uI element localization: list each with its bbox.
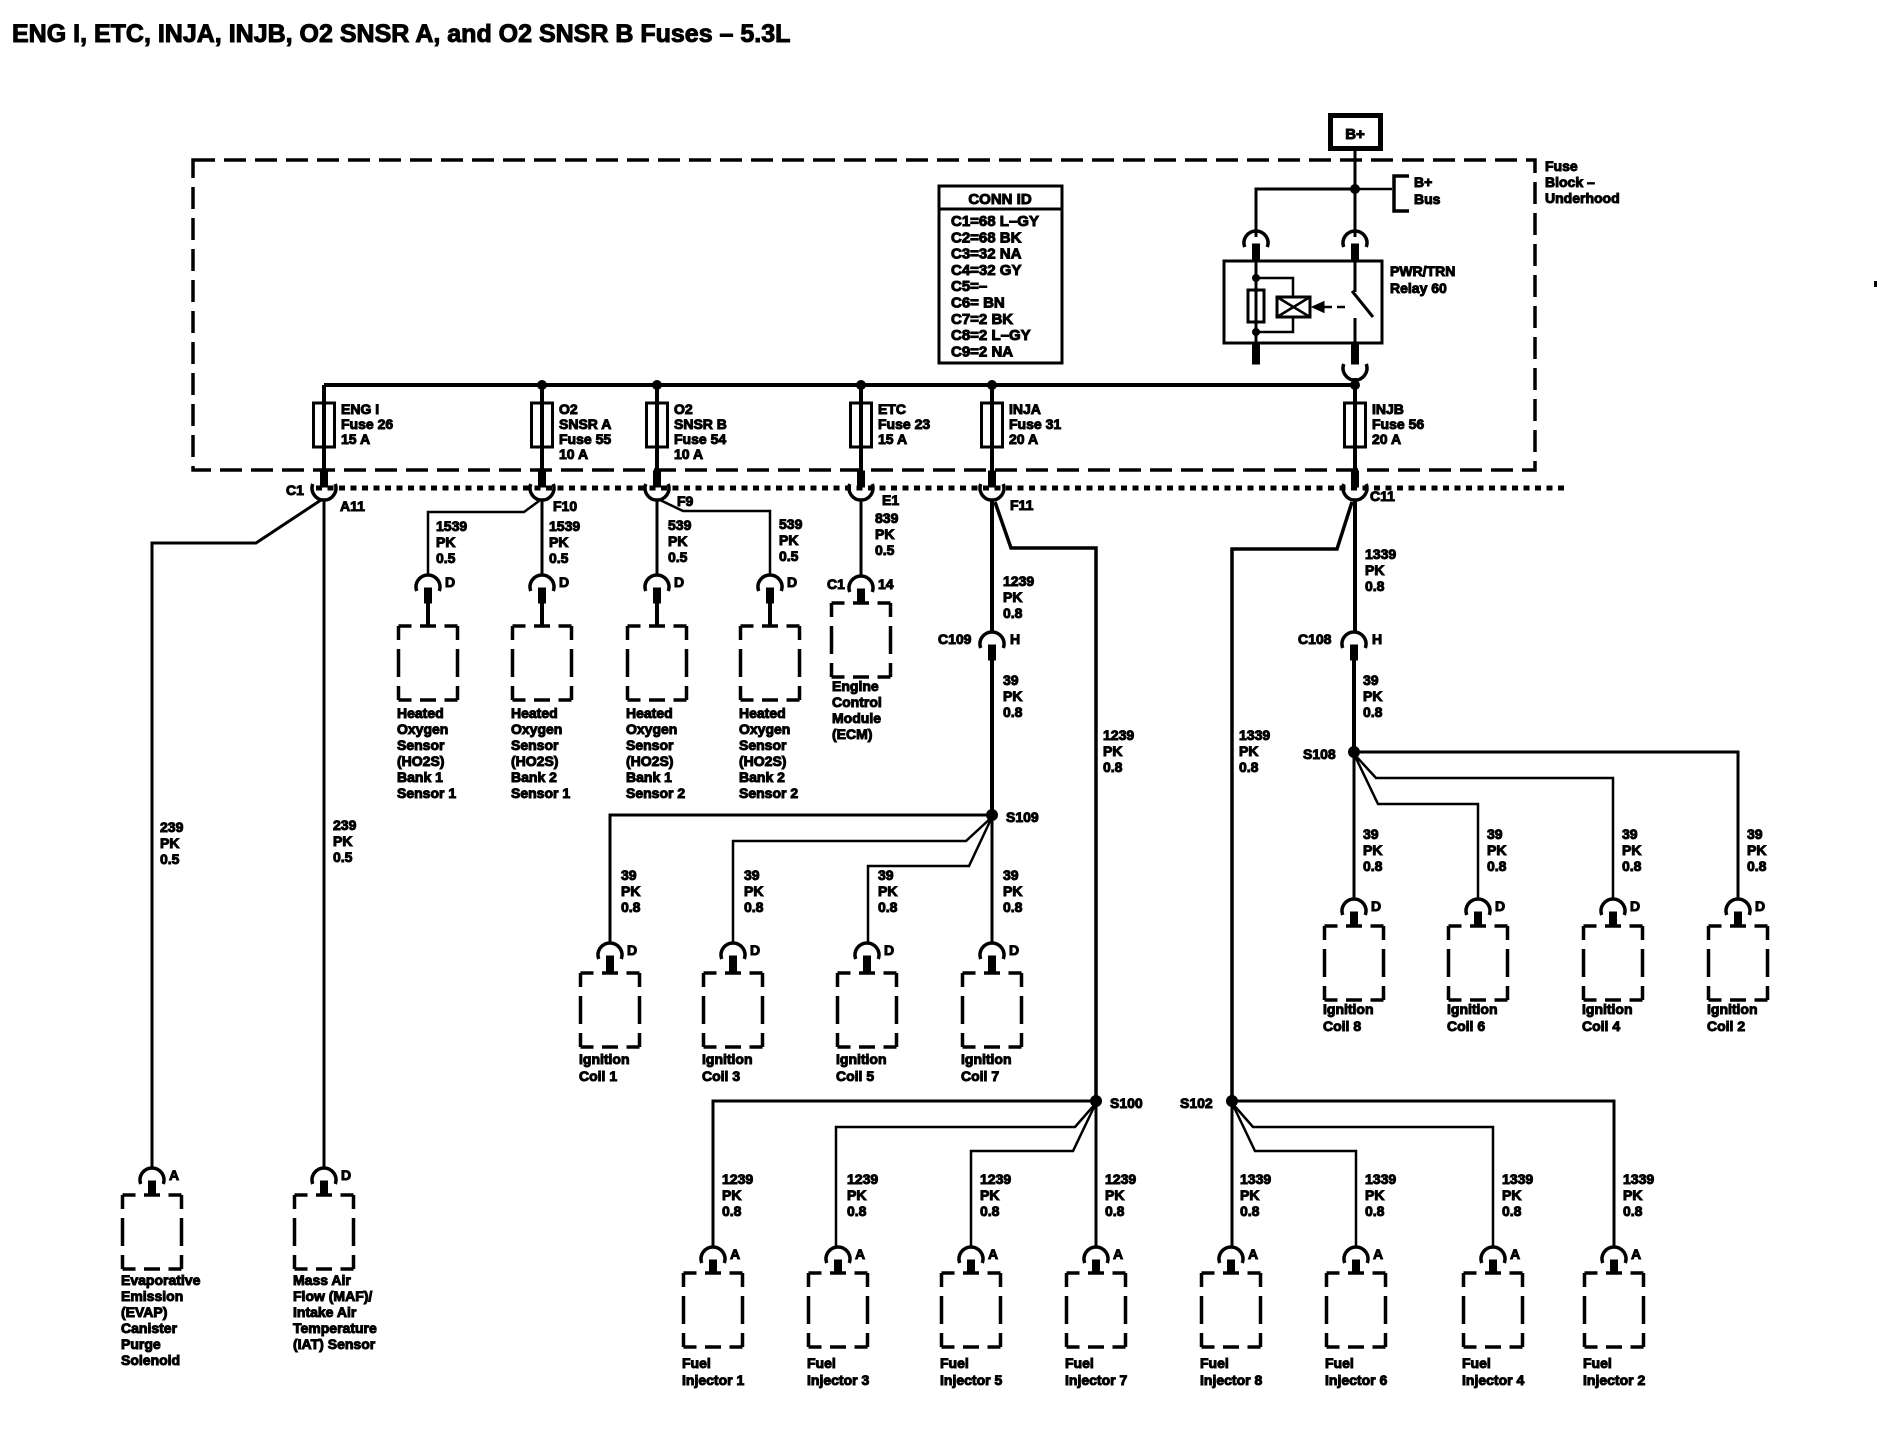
svg-text:Heated: Heated: [626, 705, 673, 721]
relay coil ground stub: [1253, 344, 1260, 364]
connector relay output: [1343, 364, 1367, 380]
svg-text:Ignition: Ignition: [579, 1051, 630, 1067]
svg-text:Oxygen: Oxygen: [739, 721, 790, 737]
wire C109 to S109 (circuit 39): [990, 659, 994, 815]
svg-text:0.8: 0.8: [1103, 759, 1123, 775]
wire C11 to C108 (circuit 1339): [1353, 499, 1357, 632]
node bus tap O2 SNSR A Fuse 55: [538, 381, 547, 390]
svg-text:0.5: 0.5: [668, 549, 688, 565]
wire junction to relay switch side: [1354, 189, 1357, 237]
wire S108 to ignition coil 8: [1353, 755, 1356, 900]
svg-text:1339: 1339: [1502, 1171, 1533, 1187]
wire F9 to HO2S bank2 sensor2 (circuit 539): [660, 500, 770, 576]
svg-text:INJA: INJA: [1009, 401, 1041, 417]
svg-text:S100: S100: [1110, 1095, 1143, 1111]
svg-text:PK: PK: [847, 1187, 866, 1203]
node bus at INJB: [1351, 381, 1360, 390]
svg-text:Injector 6: Injector 6: [1325, 1372, 1387, 1388]
svg-text:D: D: [674, 574, 684, 590]
svg-text:Ignition: Ignition: [1707, 1001, 1758, 1017]
relay coil element: [1248, 290, 1264, 322]
svg-text:Coil 8: Coil 8: [1323, 1018, 1361, 1034]
connector relay pin 2 (switch): [1343, 231, 1367, 260]
svg-text:0.8: 0.8: [980, 1203, 1000, 1219]
connector pin D of ignition coil 5: [855, 943, 879, 973]
node bus tap INJA Fuse 31: [988, 381, 997, 390]
svg-text:Fuel: Fuel: [1325, 1355, 1354, 1371]
svg-text:C11: C11: [1370, 488, 1395, 504]
wire S102 to fuel injector 6: [1232, 1103, 1356, 1248]
svg-text:Engine: Engine: [832, 678, 879, 694]
svg-text:PK: PK: [1363, 688, 1382, 704]
svg-text:0.8: 0.8: [1365, 1203, 1385, 1219]
svg-text:20 A: 20 A: [1009, 431, 1038, 447]
component box fuel injector 6: [1327, 1273, 1386, 1347]
fuse O2 SNSR A Fuse 55 10 A: [532, 385, 553, 473]
svg-text:Bank 1: Bank 1: [626, 769, 672, 785]
component box fuel injector 8: [1202, 1273, 1261, 1347]
svg-text:D: D: [445, 574, 455, 590]
component box ignition coil 4: [1584, 926, 1643, 1000]
svg-text:CONN ID: CONN ID: [968, 191, 1032, 208]
svg-text:A11: A11: [340, 498, 365, 514]
svg-text:(ECM): (ECM): [832, 726, 872, 742]
svg-text:1239: 1239: [1103, 727, 1134, 743]
connector pin D of MAF/IAT sensor: [312, 1168, 336, 1196]
connector C1 pin 14 of ECM: [849, 576, 873, 604]
svg-text:Coil 1: Coil 1: [579, 1068, 617, 1084]
svg-text:SNSR B: SNSR B: [674, 416, 727, 432]
component box MAF/IAT sensor: [295, 1195, 354, 1269]
node bus tap ETC Fuse 23: [857, 381, 866, 390]
svg-text:PK: PK: [1487, 842, 1506, 858]
wire C11 branch to S102 (circuit 1339): [1232, 502, 1352, 1101]
wire C1 to EVAP (circuit 239): [152, 500, 321, 1169]
wire F10 to HO2S bank2 sensor1 (circuit 1539): [541, 499, 544, 576]
wire relay output to bus: [1354, 378, 1357, 385]
node relay coil bottom: [1253, 329, 1260, 336]
svg-text:Fuse 26: Fuse 26: [341, 416, 393, 432]
component box fuel injector 4: [1464, 1273, 1523, 1347]
svg-text:1539: 1539: [549, 518, 580, 534]
component box HO2S bank 1 sensor 1: [399, 626, 458, 700]
svg-text:Bank 2: Bank 2: [739, 769, 785, 785]
wire F10 to HO2S bank1 sensor1 (circuit 1539): [428, 501, 539, 576]
svg-text:(HO2S): (HO2S): [397, 753, 444, 769]
artifact speck: [1874, 281, 1877, 287]
svg-text:PK: PK: [436, 534, 455, 550]
svg-text:0.8: 0.8: [1240, 1203, 1260, 1219]
svg-text:A: A: [1510, 1246, 1520, 1262]
svg-text:Sensor 1: Sensor 1: [511, 785, 570, 801]
svg-text:Ignition: Ignition: [702, 1051, 753, 1067]
svg-text:Coil 3: Coil 3: [702, 1068, 740, 1084]
connector E1 at fuse block: [849, 471, 873, 500]
svg-text:H: H: [1372, 631, 1382, 647]
connector pin A of fuel injector 6: [1344, 1247, 1368, 1274]
svg-text:Fuel: Fuel: [807, 1355, 836, 1371]
svg-text:PK: PK: [1105, 1187, 1124, 1203]
svg-text:Fuel: Fuel: [682, 1355, 711, 1371]
svg-text:1339: 1339: [1365, 546, 1396, 562]
svg-text:Oxygen: Oxygen: [511, 721, 562, 737]
node splice S102: [1227, 1096, 1238, 1107]
svg-text:(HO2S): (HO2S): [739, 753, 786, 769]
wire S100 to fuel injector 1: [713, 1101, 1096, 1248]
svg-text:B+: B+: [1345, 126, 1365, 143]
svg-text:0.8: 0.8: [744, 899, 764, 915]
svg-text:Ignition: Ignition: [836, 1051, 887, 1067]
svg-text:Fuse 56: Fuse 56: [1372, 416, 1424, 432]
svg-text:PK: PK: [1622, 842, 1641, 858]
svg-text:Emission: Emission: [121, 1288, 183, 1304]
svg-text:0.5: 0.5: [160, 851, 180, 867]
svg-text:1239: 1239: [1003, 573, 1034, 589]
connector F10 at fuse block: [530, 471, 554, 500]
svg-text:C108: C108: [1298, 631, 1332, 647]
svg-text:A: A: [1113, 1246, 1123, 1262]
svg-text:PK: PK: [549, 534, 568, 550]
connector pin D of ignition coil 3: [721, 943, 745, 973]
svg-text:Injector 4: Injector 4: [1462, 1372, 1524, 1388]
connector C1 pin A11 at fuse block: [312, 471, 336, 500]
svg-text:1339: 1339: [1240, 1171, 1271, 1187]
component box fuel injector 7: [1067, 1273, 1126, 1347]
connector pin D of HO2S bank 2 sensor 1: [530, 575, 554, 626]
component box ignition coil 7: [963, 973, 1022, 1047]
wire S102 to fuel injector 2: [1232, 1101, 1614, 1248]
svg-text:C9=2 NA: C9=2 NA: [951, 343, 1013, 360]
svg-text:10 A: 10 A: [559, 446, 588, 462]
connector F11 at fuse block: [980, 471, 1004, 500]
svg-text:39: 39: [621, 867, 637, 883]
connector C11 at fuse block: [1343, 471, 1367, 500]
svg-text:0.8: 0.8: [1623, 1203, 1643, 1219]
svg-text:Evaporative: Evaporative: [121, 1272, 201, 1288]
svg-text:1339: 1339: [1623, 1171, 1654, 1187]
svg-text:10 A: 10 A: [674, 446, 703, 462]
svg-text:PK: PK: [621, 883, 640, 899]
svg-text:1339: 1339: [1239, 727, 1270, 743]
relay switch contact: [1354, 261, 1357, 292]
svg-text:C109: C109: [938, 631, 972, 647]
svg-text:Coil 2: Coil 2: [1707, 1018, 1745, 1034]
component box fuel injector 5: [942, 1273, 1001, 1347]
svg-text:C1: C1: [827, 576, 845, 592]
svg-text:A: A: [1373, 1246, 1383, 1262]
svg-text:D: D: [1630, 898, 1640, 914]
connector pin D of ignition coil 1: [598, 943, 622, 973]
svg-text:C2=68 BK: C2=68 BK: [951, 229, 1022, 246]
svg-text:Sensor: Sensor: [511, 737, 559, 753]
svg-text:D: D: [787, 574, 797, 590]
svg-text:PK: PK: [160, 835, 179, 851]
svg-text:C1: C1: [286, 482, 304, 498]
svg-text:Sensor: Sensor: [626, 737, 674, 753]
svg-text:Coil 5: Coil 5: [836, 1068, 874, 1084]
wire S102 to fuel injector 8: [1231, 1104, 1234, 1248]
component box HO2S bank 2 sensor 1: [513, 626, 572, 700]
svg-text:D: D: [1371, 898, 1381, 914]
svg-text:PK: PK: [1003, 589, 1022, 605]
connector pin A of fuel injector 8: [1219, 1247, 1243, 1274]
connector C109 pin H: [980, 632, 1004, 660]
node splice S109: [987, 810, 998, 821]
relay control dashed link with arrowhead: [1312, 302, 1324, 313]
svg-text:A: A: [1631, 1246, 1641, 1262]
svg-text:Temperature: Temperature: [293, 1320, 377, 1336]
component box ignition coil 2: [1709, 926, 1768, 1000]
svg-text:Heated: Heated: [397, 705, 444, 721]
svg-text:Injector 8: Injector 8: [1200, 1372, 1262, 1388]
wire B+ to junction: [1354, 151, 1357, 189]
svg-text:Solenoid: Solenoid: [121, 1352, 180, 1368]
svg-text:(IAT) Sensor: (IAT) Sensor: [293, 1336, 376, 1352]
svg-text:INJB: INJB: [1372, 401, 1404, 417]
svg-text:PK: PK: [878, 883, 897, 899]
svg-text:Ignition: Ignition: [1447, 1001, 1498, 1017]
svg-text:F10: F10: [553, 498, 577, 514]
component box fuel injector 3: [809, 1273, 868, 1347]
svg-text:Sensor: Sensor: [397, 737, 445, 753]
svg-text:0.5: 0.5: [549, 550, 569, 566]
svg-text:20 A: 20 A: [1372, 431, 1401, 447]
component box ignition coil 6: [1449, 926, 1508, 1000]
svg-text:(EVAP): (EVAP): [121, 1304, 167, 1320]
svg-text:O2: O2: [559, 401, 578, 417]
wire S109 to ignition coil 5: [868, 817, 992, 944]
svg-text:Purge: Purge: [121, 1336, 161, 1352]
svg-text:C3=32 NA: C3=32 NA: [951, 246, 1022, 263]
svg-text:A: A: [988, 1246, 998, 1262]
component box ignition coil 3: [704, 973, 763, 1047]
CONN ID table: [939, 186, 1062, 363]
svg-text:PWR/TRN: PWR/TRN: [1390, 263, 1455, 279]
svg-text:0.5: 0.5: [875, 542, 895, 558]
svg-text:839: 839: [875, 510, 899, 526]
svg-text:PK: PK: [333, 833, 352, 849]
svg-text:D: D: [559, 574, 569, 590]
connector pin A of fuel injector 4: [1481, 1247, 1505, 1274]
svg-text:0.8: 0.8: [1003, 605, 1023, 621]
svg-text:C6= BN: C6= BN: [951, 295, 1005, 312]
connector pin A of EVAP solenoid: [140, 1168, 164, 1196]
svg-text:Ignition: Ignition: [1582, 1001, 1633, 1017]
svg-text:1239: 1239: [1105, 1171, 1136, 1187]
svg-text:0.8: 0.8: [1105, 1203, 1125, 1219]
connector pin A of fuel injector 7: [1084, 1247, 1108, 1274]
svg-text:0.8: 0.8: [1622, 858, 1642, 874]
svg-text:15 A: 15 A: [341, 431, 370, 447]
svg-text:PK: PK: [779, 532, 798, 548]
svg-text:S102: S102: [1180, 1095, 1213, 1111]
connector pin D of ignition coil 7: [980, 943, 1004, 973]
svg-text:0.8: 0.8: [878, 899, 898, 915]
svg-text:PK: PK: [875, 526, 894, 542]
svg-text:0.8: 0.8: [1502, 1203, 1522, 1219]
relay suppression device (boxed X): [1277, 297, 1310, 317]
relay coil branch wire: [1255, 261, 1258, 343]
svg-text:539: 539: [668, 517, 692, 533]
svg-text:Fuse: Fuse: [1545, 158, 1578, 174]
svg-text:A: A: [855, 1246, 865, 1262]
svg-text:Fuse 23: Fuse 23: [878, 416, 930, 432]
wire S108 to ignition coil 4: [1354, 754, 1613, 900]
connector pin D of HO2S bank 1 sensor 1: [416, 575, 440, 626]
svg-text:PK: PK: [744, 883, 763, 899]
svg-text:PK: PK: [1623, 1187, 1642, 1203]
connector F9 at fuse block: [645, 471, 669, 500]
svg-text:PK: PK: [1365, 1187, 1384, 1203]
component box ignition coil 5: [838, 973, 897, 1047]
wire A11 to MAF (circuit 239): [323, 499, 326, 1169]
svg-text:Sensor: Sensor: [739, 737, 787, 753]
svg-text:Flow (MAF)/: Flow (MAF)/: [293, 1288, 372, 1304]
svg-text:0.5: 0.5: [779, 548, 799, 564]
fuse ENG I Fuse 26 15 A: [314, 385, 335, 473]
svg-text:Coil 4: Coil 4: [1582, 1018, 1620, 1034]
svg-text:0.8: 0.8: [722, 1203, 742, 1219]
op-amp ECM box: [832, 603, 891, 677]
svg-text:O2: O2: [674, 401, 693, 417]
svg-text:0.8: 0.8: [847, 1203, 867, 1219]
svg-text:Sensor 1: Sensor 1: [397, 785, 456, 801]
svg-text:39: 39: [1003, 867, 1019, 883]
svg-text:Injector 7: Injector 7: [1065, 1372, 1127, 1388]
svg-text:Fuel: Fuel: [1583, 1355, 1612, 1371]
svg-text:0.8: 0.8: [1747, 858, 1767, 874]
connector pin D of ignition coil 6: [1466, 899, 1490, 927]
component box ignition coil 1: [581, 973, 640, 1047]
svg-text:Sensor 2: Sensor 2: [739, 785, 798, 801]
component box HO2S bank 2 sensor 2: [741, 626, 800, 700]
svg-text:239: 239: [333, 817, 357, 833]
svg-text:0.8: 0.8: [1363, 704, 1383, 720]
wire F9 to HO2S bank1 sensor2 (circuit 539): [656, 499, 659, 576]
svg-text:39: 39: [1622, 826, 1638, 842]
svg-text:39: 39: [1363, 672, 1379, 688]
svg-text:0.8: 0.8: [621, 899, 641, 915]
wire S108 to ignition coil 2: [1354, 752, 1738, 900]
svg-text:Fuel: Fuel: [1200, 1355, 1229, 1371]
svg-text:Fuel: Fuel: [1462, 1355, 1491, 1371]
svg-text:PK: PK: [1239, 743, 1258, 759]
relay output pin: [1352, 344, 1359, 364]
node bus tap O2 SNSR B Fuse 54: [653, 381, 662, 390]
connector pin D of HO2S bank 2 sensor 2: [758, 575, 782, 626]
svg-text:Intake Air: Intake Air: [293, 1304, 357, 1320]
wire E1 to ECM (circuit 839): [860, 499, 863, 577]
connector pin D of ignition coil 4: [1601, 899, 1625, 927]
svg-text:15 A: 15 A: [878, 431, 907, 447]
component box fuel injector 2: [1585, 1273, 1644, 1347]
svg-text:PK: PK: [1003, 883, 1022, 899]
svg-text:Canister: Canister: [121, 1320, 178, 1336]
svg-text:PK: PK: [1747, 842, 1766, 858]
node relay coil top: [1253, 275, 1260, 282]
svg-text:PK: PK: [1363, 842, 1382, 858]
wire C108 to S108 (circuit 39): [1352, 659, 1356, 752]
svg-text:1239: 1239: [847, 1171, 878, 1187]
connector relay pin 1 (coil): [1244, 231, 1268, 260]
node splice S100: [1091, 1096, 1102, 1107]
wire S109 to ignition coil 3: [733, 817, 992, 944]
svg-text:D: D: [884, 942, 894, 958]
fuse block underhood dashed outline: [193, 160, 1535, 470]
svg-text:Oxygen: Oxygen: [397, 721, 448, 737]
svg-text:Coil 6: Coil 6: [1447, 1018, 1485, 1034]
wire S109 to ignition coil 7: [991, 818, 994, 944]
svg-text:39: 39: [1747, 826, 1763, 842]
svg-text:0.8: 0.8: [1003, 899, 1023, 915]
svg-text:PK: PK: [1003, 688, 1022, 704]
svg-text:F11: F11: [1010, 497, 1034, 513]
svg-text:39: 39: [1487, 826, 1503, 842]
svg-text:0.8: 0.8: [1365, 578, 1385, 594]
connector C108 pin H: [1342, 632, 1366, 660]
wire F11 branch to S100 (circuit 1239): [995, 502, 1096, 1101]
svg-text:A: A: [730, 1246, 740, 1262]
wire S108 to ignition coil 6: [1354, 754, 1478, 900]
node splice S108: [1349, 747, 1360, 758]
svg-text:B+: B+: [1414, 174, 1432, 190]
wire S102 to fuel injector 4: [1232, 1103, 1493, 1248]
relay suppression bypass wire: [1256, 278, 1293, 297]
svg-text:S108: S108: [1303, 746, 1336, 762]
svg-text:14: 14: [878, 576, 894, 592]
svg-text:PK: PK: [1103, 743, 1122, 759]
svg-text:1239: 1239: [722, 1171, 753, 1187]
wire F11 to C109 (circuit 1239): [990, 499, 994, 632]
svg-text:Oxygen: Oxygen: [626, 721, 677, 737]
connector pin D of ignition coil 2: [1726, 899, 1750, 927]
svg-text:(HO2S): (HO2S): [626, 753, 673, 769]
svg-text:D: D: [1009, 942, 1019, 958]
wire junction to relay coil side: [1256, 189, 1355, 237]
connector pin A of fuel injector 2: [1602, 1247, 1626, 1274]
svg-text:PK: PK: [1502, 1187, 1521, 1203]
svg-text:PK: PK: [668, 533, 687, 549]
svg-text:PK: PK: [1240, 1187, 1259, 1203]
svg-text:1539: 1539: [436, 518, 467, 534]
connector pin A of fuel injector 1: [701, 1247, 725, 1274]
svg-text:E1: E1: [882, 492, 899, 508]
svg-text:ENG I: ENG I: [341, 401, 379, 417]
svg-text:0.8: 0.8: [1363, 858, 1383, 874]
B+ Bus tap: [1355, 188, 1392, 191]
wire fuse supply bus: [324, 383, 1355, 387]
svg-text:Bus: Bus: [1414, 191, 1441, 207]
svg-text:A: A: [169, 1167, 179, 1183]
svg-text:D: D: [1495, 898, 1505, 914]
connector row dotted line C1/C2: [316, 486, 1565, 491]
svg-text:39: 39: [878, 867, 894, 883]
svg-text:Injector 1: Injector 1: [682, 1372, 744, 1388]
svg-text:39: 39: [1363, 826, 1379, 842]
svg-text:1339: 1339: [1365, 1171, 1396, 1187]
svg-text:Fuse 31: Fuse 31: [1009, 416, 1061, 432]
svg-text:39: 39: [744, 867, 760, 883]
relay U60 PWR/TRN box: [1224, 261, 1382, 343]
svg-text:39: 39: [1003, 672, 1019, 688]
connector pin A of fuel injector 3: [826, 1247, 850, 1274]
svg-text:C4=32 GY: C4=32 GY: [951, 262, 1021, 279]
svg-text:Fuel: Fuel: [940, 1355, 969, 1371]
connector pin D of HO2S bank 1 sensor 2: [645, 575, 669, 626]
svg-text:1239: 1239: [980, 1171, 1011, 1187]
svg-text:Injector 3: Injector 3: [807, 1372, 869, 1388]
svg-text:Fuse 54: Fuse 54: [674, 431, 726, 447]
